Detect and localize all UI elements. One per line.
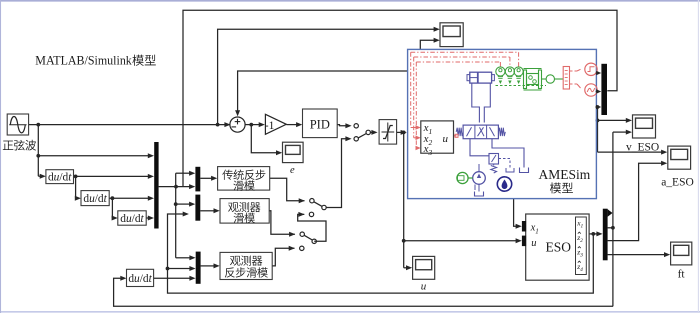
svg-text:ESO: ESO — [546, 240, 572, 255]
svg-text:u: u — [531, 238, 536, 249]
svg-text:du/dt: du/dt — [83, 193, 107, 205]
svg-text:v_ESO: v_ESO — [626, 142, 659, 154]
svg-text:MATLAB/Simulink: MATLAB/Simulink — [35, 53, 132, 67]
svg-text:u: u — [443, 133, 449, 145]
svg-text:du/dt: du/dt — [128, 273, 152, 285]
svg-text:e: e — [290, 165, 295, 176]
svg-text:a_ESO: a_ESO — [661, 177, 694, 189]
svg-text:du/dt: du/dt — [120, 213, 144, 225]
svg-text:AMESim: AMESim — [539, 167, 591, 182]
svg-text:ft: ft — [678, 269, 686, 281]
svg-text:PID: PID — [310, 118, 330, 132]
svg-text:u: u — [421, 280, 427, 292]
svg-text:-1: -1 — [265, 120, 275, 132]
svg-text:du/dt: du/dt — [48, 172, 72, 184]
